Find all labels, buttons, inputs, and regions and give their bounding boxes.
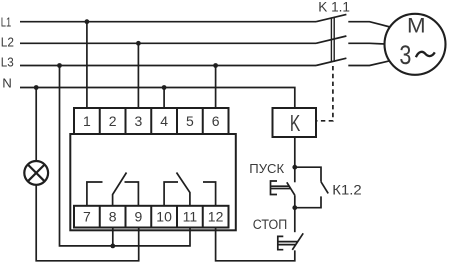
- wire L2 to terminal 3: [137, 43, 139, 108]
- wire L3 to motor: [348, 61, 389, 66]
- svg-text:8: 8: [109, 208, 117, 224]
- svg-text:11: 11: [183, 208, 198, 224]
- wire coil K to start button: [294, 137, 296, 182]
- wire L3 down to bottom bus: [60, 66, 191, 246]
- terminal strip 7-12: [74, 206, 229, 228]
- svg-text:M: M: [407, 15, 426, 38]
- node N-lamp: [34, 85, 39, 90]
- contactor contact K1.1 phase L1 blade: [316, 14, 346, 21]
- push button START blade: [287, 182, 295, 195]
- contact K1.2 branch wire upper: [295, 167, 321, 182]
- wire L1 to terminal 1: [86, 22, 88, 108]
- relay body U1: [70, 134, 236, 230]
- motor M: [385, 14, 446, 75]
- wire terminal 8 drop: [112, 228, 114, 246]
- contactor contact K1.1 phase L3 blade: [316, 58, 346, 65]
- node L3-terminal6: [213, 63, 218, 68]
- svg-text:3: 3: [135, 113, 143, 129]
- svg-text:L3: L3: [1, 55, 14, 70]
- contact K1.2 blade: [321, 182, 328, 194]
- svg-text:СТОП: СТОП: [253, 217, 287, 232]
- svg-text:L1: L1: [1, 14, 12, 29]
- node L1-terminal1: [85, 19, 90, 24]
- svg-text:K 1.1: K 1.1: [318, 0, 350, 15]
- coil K box: [273, 108, 317, 137]
- node start/K1.2 branch: [292, 165, 297, 170]
- node L2-terminal3: [136, 41, 141, 46]
- relay contact 7-8-9 fixed contact 9: [125, 182, 139, 206]
- wire L1: [20, 21, 316, 23]
- relay contact 7-8-9 fixed contact 7: [87, 182, 103, 206]
- node N-terminal4: [162, 85, 167, 90]
- svg-text:3: 3: [399, 40, 411, 70]
- relay contact 10-11-12 fixed contact 10: [164, 182, 178, 206]
- contactor contact K1.1 phase L2 blade: [316, 36, 346, 43]
- svg-text:ПУСК: ПУСК: [249, 161, 284, 176]
- push button STOP actuator rod: [278, 241, 298, 243]
- contact K1.2 branch wire lower: [295, 196, 321, 207]
- wire L3 to terminal 6: [215, 66, 217, 109]
- wire terminal 12 to stop button: [216, 228, 295, 261]
- node L3 left drop: [57, 63, 62, 68]
- wire N to lamp: [35, 88, 37, 162]
- svg-text:K: K: [290, 110, 301, 136]
- K1.1 linkage bar: [330, 17, 332, 62]
- svg-text:N: N: [2, 76, 12, 91]
- push button STOP actuator bracket: [278, 236, 284, 249]
- relay contact 7-8-9 moving arm 8: [113, 173, 127, 206]
- node bottom bus / terminal 8: [110, 244, 115, 249]
- relay contact 10-11-12 moving arm 11: [177, 173, 190, 206]
- wire L2: [20, 42, 316, 44]
- K1.1 linkage dashed to coil: [317, 66, 333, 121]
- svg-text:7: 7: [83, 208, 91, 224]
- svg-text:12: 12: [208, 208, 224, 224]
- lamp HL: [24, 161, 48, 185]
- wire N to terminal 4: [163, 88, 165, 109]
- svg-text:1: 1: [83, 113, 91, 129]
- push button START actuator rod: [271, 185, 290, 187]
- wire lamp to terminal 9: [36, 185, 139, 261]
- svg-text:L2: L2: [1, 35, 14, 50]
- relay contact 10-11-12 fixed contact 12: [203, 182, 216, 206]
- svg-text:2: 2: [109, 113, 117, 129]
- svg-text:9: 9: [135, 208, 143, 224]
- wire L2 to motor: [348, 42, 384, 45]
- svg-text:4: 4: [160, 113, 168, 129]
- svg-text:6: 6: [212, 113, 220, 129]
- terminal strip 1-6: [74, 108, 229, 134]
- wire L3: [20, 65, 316, 67]
- svg-text:К1.2: К1.2: [332, 181, 362, 197]
- node K1.2 return: [292, 205, 297, 210]
- svg-text:10: 10: [156, 208, 172, 224]
- wire start button to stop button: [294, 195, 296, 232]
- push button START actuator bracket: [271, 181, 278, 195]
- svg-text:5: 5: [186, 113, 194, 129]
- push button STOP blade: [292, 233, 303, 250]
- wire L1 to motor: [348, 22, 390, 27]
- wire N (to coil K): [20, 88, 295, 109]
